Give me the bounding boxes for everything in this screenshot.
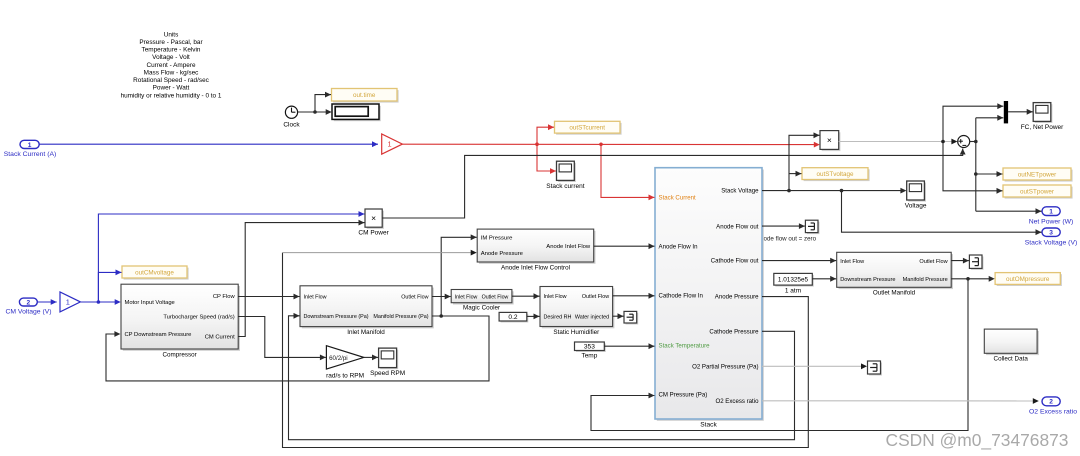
wire O2 Partial Pressure to terminator (gray) bbox=[762, 363, 867, 369]
svg-text:O2 Partial Pressure (Pa): O2 Partial Pressure (Pa) bbox=[692, 364, 758, 371]
svg-text:Pressure - Pascal, bar: Pressure - Pascal, bar bbox=[139, 39, 203, 46]
svg-text:FC, Net Power: FC, Net Power bbox=[1021, 124, 1064, 131]
svg-text:humidity or relative humidity: humidity or relative humidity - 0 to 1 bbox=[121, 92, 222, 99]
svg-text:Inlet Manifold: Inlet Manifold bbox=[347, 329, 385, 336]
wire product output to sum plus (light gray) bbox=[839, 139, 958, 145]
clock block Clock bbox=[283, 106, 300, 128]
wire mux to FC Net Power scope bbox=[1008, 109, 1033, 115]
wire Water injected to terminator bbox=[613, 313, 624, 319]
wire Turbocharger Speed to rad/s gain bbox=[238, 317, 326, 361]
svg-text:1 atm: 1 atm bbox=[785, 287, 801, 294]
svg-text:outSTcurrent: outSTcurrent bbox=[569, 125, 605, 132]
label anode flow out = zero bbox=[756, 236, 817, 243]
terminator (anode flow out) bbox=[805, 220, 819, 234]
to-workspace outSTvoltage bbox=[802, 168, 870, 181]
svg-text:CSDN @m0_73476873: CSDN @m0_73476873 bbox=[886, 430, 1069, 450]
output port 1 Net Power (W) bbox=[1029, 207, 1074, 226]
svg-text:Cathode Pressure: Cathode Pressure bbox=[709, 329, 759, 336]
scope FC, Net Power bbox=[1021, 103, 1064, 131]
wire Humidifier outlet to Cathode Flow In bbox=[613, 293, 655, 299]
svg-text:Voltage: Voltage bbox=[905, 203, 927, 210]
wire clock branch to out.time bbox=[315, 92, 331, 112]
to-workspace outSTcurrent bbox=[555, 121, 622, 134]
svg-text:Temperature - Kelvin: Temperature - Kelvin bbox=[142, 47, 201, 54]
svg-text:353: 353 bbox=[584, 344, 595, 351]
wire 1 atm to Downstream Pressure bbox=[812, 276, 836, 282]
svg-text:Stack Voltage: Stack Voltage bbox=[721, 188, 759, 195]
svg-text:Compressor: Compressor bbox=[162, 351, 196, 358]
svg-text:rad/s to RPM: rad/s to RPM bbox=[326, 372, 364, 379]
svg-text:CM Voltage (V): CM Voltage (V) bbox=[5, 309, 51, 316]
svg-text:Outlet Flow: Outlet Flow bbox=[919, 259, 948, 265]
svg-text:O2 Excess ratio: O2 Excess ratio bbox=[1029, 409, 1077, 416]
wire Cathode Pressure feedback to Inlet Manifold Downstream bbox=[289, 313, 795, 440]
wire to outNETpower bbox=[976, 171, 1003, 177]
svg-text:Stack Voltage (V): Stack Voltage (V) bbox=[1025, 239, 1078, 246]
svg-text:Rotational Speed - rad/sec: Rotational Speed - rad/sec bbox=[133, 77, 209, 84]
wire 0.2 to Desired RH bbox=[527, 314, 540, 320]
wire vertical to mux input 1 bbox=[943, 103, 1003, 141]
svg-text:Stack: Stack bbox=[700, 421, 717, 428]
svg-text:Stack Current: Stack Current bbox=[659, 195, 697, 202]
svg-text:Motor Input Voltage: Motor Input Voltage bbox=[125, 300, 175, 306]
svg-text:Manifold Pressure: Manifold Pressure bbox=[903, 277, 948, 283]
wire branch to outSTcurrent bbox=[537, 124, 554, 144]
svg-text:CM Power: CM Power bbox=[358, 229, 389, 236]
wire Anode Inlet Flow to Stack bbox=[594, 243, 655, 249]
wire gain output (red) to product bbox=[402, 142, 819, 148]
output port 2 O2 Excess ratio bbox=[1029, 397, 1077, 416]
wire Manifold Pressure to outOMpressure bbox=[951, 276, 995, 282]
svg-text:Downstream Pressure: Downstream Pressure bbox=[840, 277, 895, 283]
wire blue branch to CM Power product bbox=[98, 211, 364, 302]
input port 1 Stack Current (A) bbox=[4, 140, 57, 158]
mux block bbox=[1004, 101, 1008, 123]
svg-text:Anode Inlet Flow: Anode Inlet Flow bbox=[546, 244, 591, 250]
svg-text:Inlet Flow: Inlet Flow bbox=[840, 259, 865, 265]
wire O2 Excess ratio to output port 2 (gray) bbox=[762, 398, 1039, 404]
subsystem Collect Data bbox=[984, 329, 1039, 363]
wire Magic Cooler to Static Humidifier bbox=[512, 293, 540, 299]
svg-text:CM Pressure (Pa): CM Pressure (Pa) bbox=[659, 392, 708, 399]
wire branch to Stack current scope bbox=[537, 144, 556, 174]
wire Manifold Pressure feedback to CM Pressure bbox=[591, 279, 968, 431]
svg-text:Collect Data: Collect Data bbox=[994, 356, 1029, 363]
wire clock to display bbox=[298, 109, 332, 115]
to-workspace out.time bbox=[332, 89, 399, 103]
scope Voltage bbox=[905, 181, 927, 210]
svg-text:Magic Cooler: Magic Cooler bbox=[463, 305, 500, 312]
constant 1.01325e5 (1 atm) bbox=[774, 273, 814, 294]
svg-text:Inlet Flow: Inlet Flow bbox=[455, 294, 478, 300]
svg-text:1.01325e5: 1.01325e5 bbox=[778, 277, 809, 284]
svg-text:Clock: Clock bbox=[283, 122, 300, 129]
svg-text:Manifold Pressure (Pa): Manifold Pressure (Pa) bbox=[373, 314, 428, 320]
subsystem Outlet Manifold bbox=[837, 252, 953, 296]
wire CM Current to CM Power product bbox=[238, 220, 364, 337]
svg-text:Speed RPM: Speed RPM bbox=[370, 370, 405, 377]
wire to output port 1 bbox=[976, 208, 1042, 214]
wire branch to Stack current port bbox=[601, 144, 655, 200]
to-workspace outOMpressure bbox=[995, 273, 1062, 286]
svg-text:2: 2 bbox=[26, 299, 30, 306]
wire blue branch to outCMvoltage bbox=[98, 270, 121, 303]
svg-text:Voltage - Volt: Voltage - Volt bbox=[152, 54, 190, 61]
wire CM Voltage to gain bbox=[37, 299, 56, 305]
terminator (O2 partial pressure) bbox=[868, 361, 883, 376]
product CM Power bbox=[358, 209, 389, 236]
wire CM Power output to sum minus bbox=[382, 149, 965, 219]
svg-text:CM Current: CM Current bbox=[205, 335, 235, 341]
svg-text:Outlet Manifold: Outlet Manifold bbox=[873, 290, 916, 297]
svg-text:2: 2 bbox=[1049, 399, 1053, 406]
svg-text:CP Downstream Pressure: CP Downstream Pressure bbox=[125, 332, 192, 338]
svg-text:Anode Pressure: Anode Pressure bbox=[481, 251, 524, 257]
svg-text:Downstream Pressure (Pa): Downstream Pressure (Pa) bbox=[304, 314, 369, 320]
gain 60/2/pi rad/s to RPM bbox=[326, 346, 364, 380]
wire IM Pressure branch bbox=[441, 234, 477, 316]
svg-text:Inlet Flow: Inlet Flow bbox=[304, 295, 327, 301]
svg-text:Current - Ampere: Current - Ampere bbox=[146, 62, 195, 69]
svg-text:Mass Flow - kg/sec: Mass Flow - kg/sec bbox=[144, 69, 199, 76]
svg-text:Anode Flow out: Anode Flow out bbox=[716, 224, 759, 231]
svg-text:Stack current: Stack current bbox=[546, 183, 584, 190]
wire Manifold Pressure feedback to CP Downstream Pressure bbox=[106, 314, 489, 381]
constant 0.2 bbox=[499, 312, 528, 322]
wire Outlet Flow to terminator bbox=[951, 258, 969, 264]
to-workspace outCMvoltage bbox=[122, 266, 189, 280]
svg-text:×: × bbox=[827, 135, 832, 145]
svg-text:Inlet Flow: Inlet Flow bbox=[544, 294, 567, 300]
svg-text:1: 1 bbox=[28, 142, 32, 149]
svg-text:outNETpower: outNETpower bbox=[1018, 171, 1057, 178]
svg-text:Water injected: Water injected bbox=[575, 314, 609, 320]
input port 2 CM Voltage (V) bbox=[5, 298, 51, 316]
wire Anode Flow out to terminator bbox=[762, 223, 805, 229]
svg-text:Desired RH: Desired RH bbox=[544, 314, 572, 320]
svg-text:1: 1 bbox=[66, 297, 70, 306]
subsystem Inlet Manifold bbox=[300, 286, 434, 336]
svg-text:CP Flow: CP Flow bbox=[213, 294, 236, 300]
svg-text:Anode Inlet Flow Control: Anode Inlet Flow Control bbox=[501, 264, 570, 271]
svg-text:outCMvoltage: outCMvoltage bbox=[135, 269, 174, 276]
svg-text:Turbocharger Speed (rad/s): Turbocharger Speed (rad/s) bbox=[163, 315, 234, 321]
svg-text:O2 Excess ratio: O2 Excess ratio bbox=[715, 398, 759, 405]
wire rad/s gain to Speed RPM scope bbox=[364, 355, 378, 361]
svg-text:Cathode Flow In: Cathode Flow In bbox=[659, 293, 703, 300]
svg-text:outSTvoltage: outSTvoltage bbox=[816, 171, 854, 178]
gain 1 (red) bbox=[382, 134, 403, 154]
svg-text:0.2: 0.2 bbox=[508, 314, 517, 321]
display block bbox=[332, 104, 381, 121]
wire 353 to Stack Temperature bbox=[604, 343, 654, 349]
svg-text:IM Pressure: IM Pressure bbox=[481, 236, 513, 242]
constant 353 Temp bbox=[575, 342, 606, 360]
svg-text:outOMpressure: outOMpressure bbox=[1006, 276, 1050, 283]
sum block (net power) bbox=[958, 136, 970, 148]
to-workspace outNETpower bbox=[1003, 168, 1073, 182]
wire vertical to outSTpower bbox=[943, 142, 1003, 194]
wire Stack Voltage to Voltage scope bbox=[762, 188, 906, 194]
svg-text:out.time: out.time bbox=[353, 92, 376, 99]
watermark CSDN bbox=[886, 430, 1069, 450]
terminator (outlet flow) bbox=[969, 255, 983, 270]
svg-text:Anode Flow In: Anode Flow In bbox=[659, 244, 698, 251]
wire Anode Pressure feedback to Anode Inlet Flow Control bbox=[283, 250, 809, 448]
wire Cathode Flow out to Outlet Manifold bbox=[762, 258, 836, 264]
gain 1 (blue) bbox=[60, 292, 80, 312]
svg-text:Cathode Flow out: Cathode Flow out bbox=[711, 258, 759, 265]
to-workspace outSTpower bbox=[1003, 185, 1073, 199]
annotation units text bbox=[121, 31, 222, 99]
subsystem Anode Inlet Flow Control bbox=[477, 229, 595, 271]
svg-text:Anode flow out = zero: Anode flow out = zero bbox=[756, 236, 817, 243]
scope Speed RPM bbox=[370, 348, 405, 377]
wire Stack Voltage to output port 3 bbox=[842, 191, 1042, 236]
wire Stack Current input to gain bbox=[39, 141, 378, 147]
subsystem Static Humidifier bbox=[540, 287, 614, 336]
wire branch to outSTvoltage bbox=[789, 171, 802, 177]
svg-text:Outlet Flow: Outlet Flow bbox=[401, 295, 428, 301]
subsystem Compressor bbox=[121, 284, 240, 358]
svg-text:1: 1 bbox=[388, 140, 392, 149]
svg-text:Stack Temperature: Stack Temperature bbox=[659, 343, 711, 350]
svg-text:Static Humidifier: Static Humidifier bbox=[553, 329, 599, 336]
output port 3 Stack Voltage (V) bbox=[1025, 228, 1078, 246]
scope Stack current bbox=[546, 161, 584, 190]
svg-text:Anode Pressure: Anode Pressure bbox=[715, 294, 759, 301]
terminator (water injected) bbox=[624, 311, 638, 324]
svg-text:Outlet Flow: Outlet Flow bbox=[482, 294, 509, 300]
svg-text:3: 3 bbox=[1049, 230, 1053, 237]
subsystem Magic Cooler bbox=[451, 290, 514, 312]
wire Inlet Manifold outlet to Magic Cooler bbox=[432, 294, 451, 300]
svg-text:×: × bbox=[371, 213, 376, 223]
wire sum output branches bbox=[970, 118, 978, 211]
svg-text:Outlet Flow: Outlet Flow bbox=[582, 294, 609, 300]
svg-text:Stack Current (A): Stack Current (A) bbox=[4, 151, 57, 158]
svg-text:1: 1 bbox=[1049, 209, 1053, 216]
svg-text:Net Power (W): Net Power (W) bbox=[1029, 218, 1074, 225]
svg-text:Units: Units bbox=[164, 31, 179, 38]
wire blue gain output to Compressor bbox=[80, 299, 120, 305]
svg-text:Temp: Temp bbox=[581, 353, 597, 360]
wire Stack Voltage up to product bbox=[789, 132, 820, 190]
svg-text:60/2/pi: 60/2/pi bbox=[329, 355, 348, 362]
product (stack power) bbox=[820, 131, 840, 152]
subsystem Stack bbox=[655, 168, 764, 429]
svg-text:outSTpower: outSTpower bbox=[1020, 188, 1054, 195]
svg-text:Power - Watt: Power - Watt bbox=[153, 85, 190, 92]
wire CP Flow to Inlet Manifold bbox=[238, 294, 299, 300]
wire to mux input 2 bbox=[976, 115, 1004, 121]
